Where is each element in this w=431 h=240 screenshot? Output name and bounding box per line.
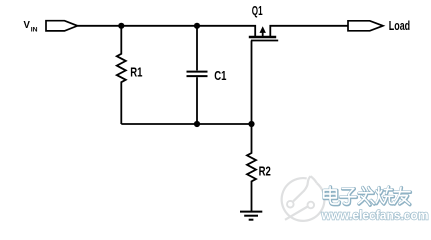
svg-text:V: V (24, 19, 30, 31)
Q1 channel bar (249, 36, 276, 39)
wire Q1 gate down to bottom rail (251, 41, 253, 125)
Q1 gate bar (251, 40, 278, 42)
Q1 body arrow (262, 31, 264, 36)
svg-text:Q1: Q1 (252, 3, 263, 18)
logo flame edge (310, 176, 316, 183)
logo pad right (308, 202, 315, 209)
Q1 drain stub + wire to Load (270, 26, 348, 37)
logo diagonal trace (285, 207, 308, 220)
watermark logo elecfans (282, 176, 325, 221)
svg-text:R2: R2 (259, 163, 271, 178)
logo pad left (287, 201, 294, 208)
node dot R1/top (118, 23, 124, 29)
resistor R2 (247, 124, 256, 211)
input terminal VIN (46, 21, 78, 31)
svg-text:IN: IN (31, 26, 38, 33)
resistor R1 (117, 26, 126, 124)
svg-text:Load: Load (389, 18, 410, 33)
output terminal Load (348, 21, 383, 31)
logo tail curve (293, 176, 310, 201)
capacitor C1 (196, 26, 198, 71)
wire VIN to Q1 source (78, 26, 256, 37)
svg-text:www.elecfans.com: www.elecfans.com (321, 208, 429, 223)
node dot C1/bottom (194, 121, 200, 127)
logo circle arc (282, 178, 325, 221)
wire bottom rail (121, 123, 251, 125)
ground (240, 211, 262, 213)
node dot gate/R2 (248, 121, 254, 127)
svg-text:R1: R1 (130, 64, 142, 79)
node dot C1/top (194, 23, 200, 29)
svg-text:C1: C1 (214, 68, 226, 83)
